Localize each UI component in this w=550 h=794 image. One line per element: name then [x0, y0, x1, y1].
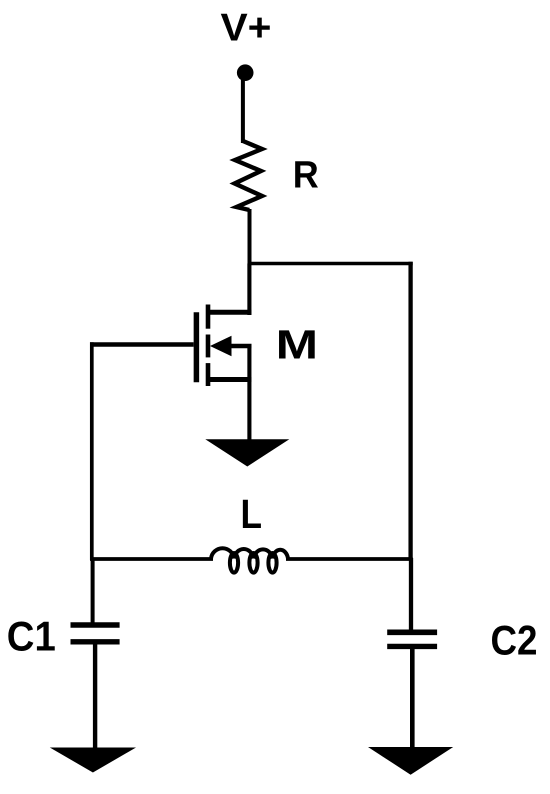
wire tank left segment [90, 557, 213, 561]
ground right [368, 747, 453, 775]
wire junction to right branch [249, 262, 412, 266]
svg-text:R: R [293, 154, 319, 197]
wire left branch to C1 [91, 558, 95, 624]
svg-text:C2: C2 [491, 617, 538, 664]
wire right vertical branch [408, 262, 412, 560]
capacitor C2 [387, 632, 437, 646]
wire resistor to drain junction [248, 209, 252, 264]
ground left [50, 748, 136, 773]
transistor M (NMOS) [196, 305, 251, 441]
wire C1 to ground [93, 643, 97, 749]
wire drain vertical [247, 264, 251, 316]
resistor R [235, 141, 262, 210]
wire C2 to ground [410, 648, 415, 749]
wire gate left vertical [90, 342, 94, 560]
wire tank right segment [286, 557, 413, 561]
svg-text:L: L [241, 491, 263, 537]
svg-text:V+: V+ [221, 7, 272, 50]
inductor L [211, 548, 288, 572]
wire gate horizontal [90, 342, 194, 347]
wire V+ to resistor [241, 78, 245, 143]
svg-text:M: M [276, 321, 319, 367]
svg-text:C1: C1 [7, 613, 56, 660]
ground arrow under source [205, 439, 289, 466]
wire right branch to C2 [409, 558, 413, 631]
capacitor C1 [71, 625, 120, 642]
node V+ terminal dot [237, 64, 254, 81]
